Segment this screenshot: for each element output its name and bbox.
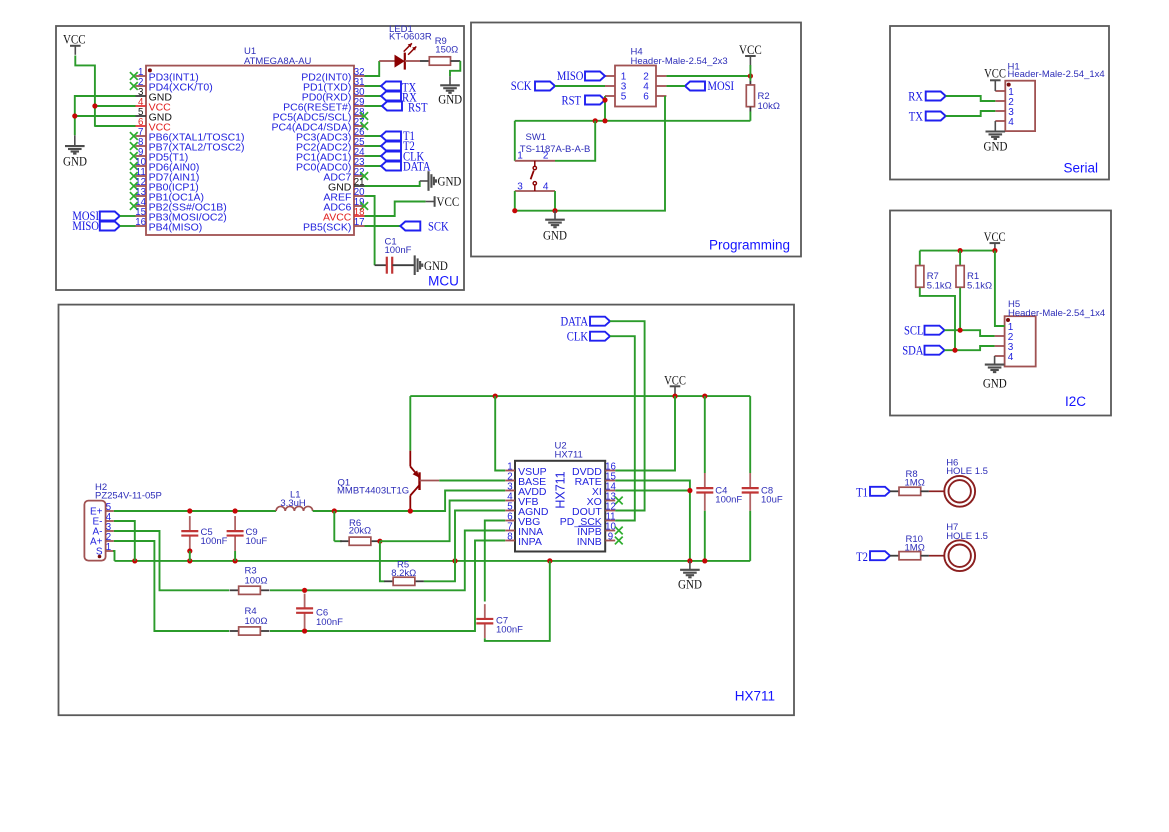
svg-text:100nF: 100nF	[496, 625, 523, 636]
svg-text:SCK: SCK	[511, 79, 532, 93]
svg-text:PZ254V-11-05P: PZ254V-11-05P	[95, 491, 162, 502]
svg-text:Header-Male-2.54_2x3: Header-Male-2.54_2x3	[631, 56, 728, 67]
svg-text:4: 4	[1008, 352, 1014, 363]
svg-text:RST: RST	[562, 93, 582, 107]
svg-text:100nF: 100nF	[715, 495, 742, 506]
svg-text:GND: GND	[678, 577, 702, 592]
svg-text:PB5(SCK): PB5(SCK)	[303, 222, 351, 234]
svg-text:GND: GND	[438, 174, 462, 189]
svg-text:100Ω: 100Ω	[245, 575, 268, 586]
svg-text:CLK: CLK	[567, 329, 588, 343]
svg-text:10uF: 10uF	[246, 536, 268, 547]
svg-text:Serial: Serial	[1063, 161, 1098, 176]
svg-text:Programming: Programming	[709, 238, 790, 253]
svg-text:VCC: VCC	[984, 230, 1006, 244]
svg-text:20kΩ: 20kΩ	[349, 526, 371, 537]
svg-text:17: 17	[354, 217, 365, 228]
svg-text:INNB: INNB	[577, 536, 602, 548]
svg-text:MISO: MISO	[72, 219, 99, 233]
svg-text:DATA: DATA	[561, 314, 589, 328]
svg-text:150Ω: 150Ω	[435, 45, 458, 56]
svg-text:100nF: 100nF	[385, 245, 412, 256]
svg-text:Header-Male-2.54_1x4: Header-Male-2.54_1x4	[1008, 69, 1105, 80]
svg-text:100Ω: 100Ω	[245, 616, 268, 627]
svg-text:10uF: 10uF	[761, 495, 783, 506]
svg-text:8.2kΩ: 8.2kΩ	[391, 568, 416, 579]
svg-text:INPA: INPA	[518, 536, 542, 548]
svg-text:6: 6	[643, 92, 649, 103]
svg-text:VCC: VCC	[664, 373, 686, 387]
svg-text:HOLE 1.5: HOLE 1.5	[946, 466, 988, 477]
svg-text:5.1kΩ: 5.1kΩ	[927, 281, 952, 292]
svg-text:MOSI: MOSI	[708, 79, 735, 93]
svg-text:1: 1	[106, 542, 111, 553]
svg-text:GND: GND	[438, 92, 462, 107]
svg-text:RST: RST	[408, 101, 428, 115]
svg-text:PB4(MISO): PB4(MISO)	[149, 222, 203, 234]
svg-text:VCC: VCC	[739, 42, 762, 57]
svg-text:ATMEGA8A-AU: ATMEGA8A-AU	[244, 56, 312, 67]
svg-text:GND: GND	[984, 138, 1008, 153]
svg-text:TS-1187A-B-A-B: TS-1187A-B-A-B	[520, 144, 591, 155]
svg-text:9: 9	[608, 531, 613, 542]
svg-text:VCC: VCC	[63, 32, 86, 47]
svg-text:3.3uH: 3.3uH	[280, 498, 305, 509]
svg-text:HX711: HX711	[554, 471, 568, 508]
svg-text:8: 8	[507, 531, 512, 542]
svg-text:T1: T1	[856, 486, 868, 500]
svg-text:10kΩ: 10kΩ	[758, 101, 780, 112]
svg-text:HX711: HX711	[555, 450, 583, 461]
svg-text:GND: GND	[63, 153, 87, 168]
svg-text:MCU: MCU	[428, 274, 459, 289]
svg-text:DATA: DATA	[403, 159, 431, 173]
svg-text:SCK: SCK	[428, 220, 449, 234]
svg-text:GND: GND	[983, 375, 1007, 390]
svg-text:I2C: I2C	[1065, 394, 1086, 409]
svg-text:HOLE 1.5: HOLE 1.5	[946, 531, 988, 542]
svg-text:100nF: 100nF	[316, 617, 343, 628]
svg-text:GND: GND	[543, 227, 567, 242]
svg-text:GND: GND	[424, 258, 448, 273]
svg-text:16: 16	[135, 217, 146, 228]
svg-text:VCC: VCC	[437, 194, 460, 209]
svg-text:1MΩ: 1MΩ	[905, 542, 925, 553]
svg-text:T2: T2	[856, 550, 868, 564]
svg-text:100nF: 100nF	[201, 536, 228, 547]
svg-text:SW1: SW1	[526, 132, 547, 143]
svg-text:Header-Male-2.54_1x4: Header-Male-2.54_1x4	[1008, 308, 1105, 319]
svg-text:RX: RX	[908, 89, 923, 103]
svg-text:MMBT4403LT1G: MMBT4403LT1G	[337, 486, 409, 497]
svg-text:HX711: HX711	[735, 689, 775, 704]
svg-text:VCC: VCC	[984, 67, 1006, 81]
svg-text:SDA: SDA	[902, 343, 923, 357]
svg-text:4: 4	[1008, 117, 1014, 128]
svg-text:1MΩ: 1MΩ	[905, 478, 925, 489]
svg-text:5.1kΩ: 5.1kΩ	[967, 281, 992, 292]
svg-text:SCL: SCL	[904, 323, 924, 337]
svg-text:KT-0603R: KT-0603R	[389, 32, 432, 43]
svg-text:S: S	[96, 547, 103, 558]
svg-text:MISO: MISO	[557, 69, 584, 83]
svg-text:5: 5	[621, 92, 627, 103]
svg-text:TX: TX	[909, 109, 923, 123]
